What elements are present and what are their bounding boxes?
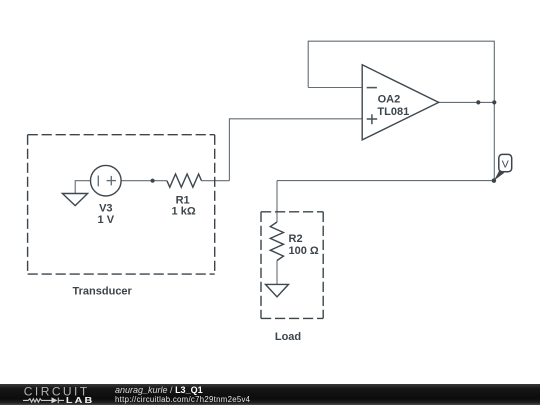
svg-text:100 Ω: 100 Ω [289,245,319,257]
svg-text:R2: R2 [289,233,303,245]
svg-text:OA2: OA2 [378,93,401,105]
svg-text:Load: Load [275,331,301,343]
svg-text:LAB: LAB [66,396,95,405]
svg-text:V: V [502,159,509,171]
svg-text:TL081: TL081 [377,106,409,118]
svg-text:1 kΩ: 1 kΩ [172,206,196,218]
